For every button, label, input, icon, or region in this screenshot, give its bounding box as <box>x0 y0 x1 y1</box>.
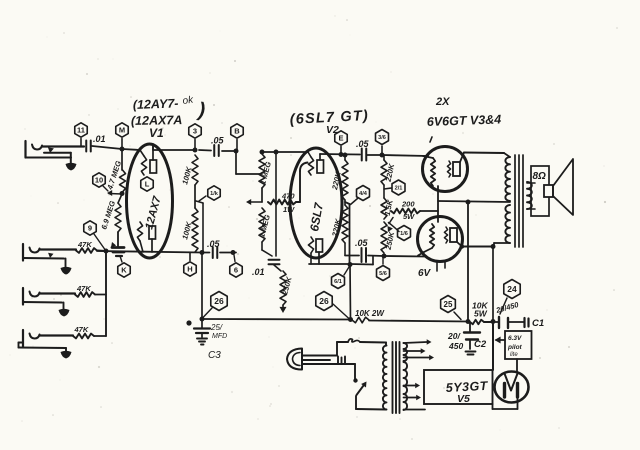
svg-text:MFD: MFD <box>212 333 227 340</box>
svg-text:47K: 47K <box>77 240 92 249</box>
node 26 left <box>203 292 227 318</box>
svg-text:K: K <box>121 266 127 275</box>
resistor 47K c <box>73 325 106 338</box>
capacitor .01 <box>86 134 105 152</box>
OT bottom wire <box>494 243 510 247</box>
pin 1 tick <box>430 137 432 142</box>
svg-text:6V: 6V <box>418 268 432 279</box>
svg-text:5W: 5W <box>403 212 415 221</box>
resistor 47K a <box>76 240 106 253</box>
PT tap heater a <box>404 339 432 345</box>
node E <box>335 131 347 154</box>
svg-text:H: H <box>187 265 192 274</box>
V2 plate lower <box>316 239 323 264</box>
V2 grid upper <box>308 152 314 175</box>
V5 heater return <box>493 397 518 409</box>
svg-text:C2: C2 <box>474 339 487 350</box>
AC prong mid <box>302 359 330 361</box>
polarity dot C3 <box>186 320 191 325</box>
node 9 <box>84 221 106 251</box>
wire 100K mid <box>194 185 196 208</box>
junction w1 <box>200 250 205 255</box>
node K <box>118 256 130 277</box>
V1 plate (lower) <box>149 226 156 252</box>
wire junction to bus <box>349 265 352 320</box>
svg-text:1/k: 1/k <box>210 191 219 197</box>
label 6V <box>418 268 432 279</box>
ground at jack J3 <box>59 309 70 317</box>
V2 output line <box>345 256 425 257</box>
wire M to resistor <box>121 149 123 170</box>
label 12AX7 inside V1 <box>143 194 164 230</box>
resistor 10K 5W <box>470 301 493 325</box>
capacitor C3 25MFD <box>194 319 227 345</box>
resistor 1MEG b <box>257 208 272 242</box>
OT core <box>515 155 523 247</box>
tube label (12AY7- ok <box>133 94 207 121</box>
svg-text:25: 25 <box>444 300 453 309</box>
capacitor .05 d <box>355 238 369 262</box>
V5 cathode bar a <box>503 384 506 398</box>
resistor 220K b <box>330 200 348 255</box>
svg-text:450: 450 <box>448 341 463 351</box>
svg-text:1/6: 1/6 <box>400 231 408 237</box>
svg-text:.05: .05 <box>207 239 221 249</box>
cathode bypass marks <box>111 232 124 256</box>
junction M <box>120 147 125 152</box>
resistor 47K b <box>75 284 106 297</box>
V5 cathode bar b <box>516 384 519 398</box>
input jack J4 <box>19 330 74 351</box>
wire jack J1 to V1 grid <box>92 146 140 150</box>
OT primary coil <box>505 157 510 243</box>
node 26 right <box>316 292 350 320</box>
tube label V2 <box>326 124 339 136</box>
PT tap to rect b <box>404 395 422 400</box>
svg-text:200: 200 <box>401 200 415 209</box>
PT core <box>393 342 400 413</box>
junction bus right <box>491 319 496 324</box>
svg-text:M: M <box>119 126 125 135</box>
capacitor 20/450 C1a <box>493 300 520 328</box>
junction B <box>234 149 239 154</box>
arrow below 250K <box>280 305 287 313</box>
junction 3/6 <box>380 153 385 158</box>
V2 plate wire <box>320 153 360 156</box>
speaker box 8ohm <box>531 166 549 216</box>
junction w2 <box>231 250 236 255</box>
node 24 <box>500 280 520 315</box>
svg-text:470: 470 <box>281 192 295 201</box>
V2 grid lower <box>308 237 313 264</box>
svg-text:C3: C3 <box>208 350 221 361</box>
resistor 220K c <box>381 155 396 185</box>
svg-text:V1: V1 <box>149 126 164 140</box>
input jack J2 <box>23 244 76 267</box>
input jack J3 <box>23 288 75 310</box>
V4 plate <box>444 227 457 243</box>
wire node3 to B <box>199 150 236 151</box>
tube label V1 <box>149 126 164 140</box>
tube label (12AX7A <box>131 113 183 128</box>
pilot lamp box <box>505 331 532 359</box>
PT tap heater b <box>404 348 426 354</box>
svg-text:3/6: 3/6 <box>378 135 386 141</box>
tube label 6V6GT V3&4 <box>427 112 502 129</box>
svg-text:24: 24 <box>507 284 517 294</box>
wire cap to 3/6 <box>367 155 428 156</box>
svg-text:6.3V: 6.3V <box>508 335 522 342</box>
wire cath to cap <box>202 252 210 254</box>
OT secondary wires <box>527 183 535 209</box>
V3 plate lead <box>460 153 504 163</box>
node 3 <box>189 124 201 150</box>
OT center tap <box>438 200 510 322</box>
junction 1meg top <box>260 150 265 155</box>
PT tap to rect a <box>404 383 421 388</box>
PT secondary 5V <box>404 343 408 361</box>
svg-text:20/: 20/ <box>447 331 461 341</box>
svg-text:47K: 47K <box>76 284 91 293</box>
node 11 <box>75 123 87 146</box>
junction node3 <box>193 148 198 153</box>
wire cap to 250K <box>274 265 281 271</box>
svg-text:3: 3 <box>193 127 197 136</box>
svg-text:C1: C1 <box>532 318 544 329</box>
resistor 220K a <box>330 155 348 200</box>
wire cap to node6 <box>220 252 236 254</box>
V3 screen lead <box>437 186 439 222</box>
resistor 470 1W <box>268 163 308 215</box>
junction bus 26 <box>348 317 353 322</box>
svg-text:26: 26 <box>214 296 224 306</box>
wire lamp to rectifier <box>516 359 518 373</box>
resistor 6.9MEG <box>99 194 122 232</box>
svg-text:8Ω: 8Ω <box>533 171 547 182</box>
AC plug <box>287 349 302 370</box>
node 25 <box>441 296 461 320</box>
node 2/1 <box>384 180 405 195</box>
bus C3 to 10K2W <box>202 318 351 321</box>
grid wire to V2 <box>262 151 308 153</box>
svg-text:E: E <box>338 134 343 143</box>
wire to OT primary top <box>504 153 510 157</box>
V1 plate (upper) <box>150 144 157 173</box>
input jack J1 <box>26 141 85 163</box>
V4 plate wire <box>457 242 494 249</box>
junction 250K bottom <box>382 254 387 259</box>
AC prong bottom <box>302 363 355 365</box>
svg-text:10: 10 <box>95 176 103 185</box>
svg-text:5/6: 5/6 <box>379 271 387 277</box>
cord connector <box>338 357 345 364</box>
junction 470 <box>261 188 263 202</box>
resistor 100K a <box>180 155 198 186</box>
junction E <box>339 152 344 157</box>
svg-text:V2: V2 <box>326 124 339 136</box>
svg-text:6V6GT V3&4: 6V6GT V3&4 <box>427 112 502 129</box>
capacitor .05 a <box>211 136 225 157</box>
wire 1MEG to cap <box>262 242 272 256</box>
resistor 250K b <box>381 222 396 253</box>
tube label (6SL7 GT) <box>289 108 369 128</box>
node 6 <box>230 255 242 277</box>
jack mixing bus <box>105 251 107 336</box>
PT secondary HV <box>404 362 408 410</box>
speaker <box>544 159 573 215</box>
wire lower signal bus <box>97 251 202 253</box>
fuse <box>337 339 386 356</box>
svg-text:.05: .05 <box>355 238 369 248</box>
heater pins V4 <box>437 261 445 271</box>
svg-text:26: 26 <box>319 296 329 306</box>
capacitor C2 20/450 <box>447 322 487 355</box>
resistor 200 5W <box>391 200 438 222</box>
V2 lower plate line <box>309 256 373 265</box>
wire screen bracket <box>345 202 350 264</box>
OT secondary coil <box>527 182 532 209</box>
V3 grid <box>423 156 435 186</box>
junction C3 <box>200 317 205 322</box>
tetrode V4 envelope <box>418 217 463 262</box>
node M <box>116 123 128 149</box>
svg-text:pilot: pilot <box>507 344 523 351</box>
junction grid tap <box>274 150 279 155</box>
junction bracket <box>196 201 203 253</box>
node H <box>184 253 196 276</box>
junction bus left 10K5W <box>466 319 471 324</box>
capacitor .05 b <box>207 239 221 258</box>
node 10 <box>93 173 108 191</box>
capacitor C1 <box>508 318 544 329</box>
wire grid tap down <box>275 152 277 256</box>
node 6/1 <box>332 267 349 289</box>
wire B down <box>236 151 262 174</box>
V5 filament V <box>505 374 518 391</box>
resistor 1.5K <box>381 185 395 219</box>
resistor 250K a <box>280 271 294 305</box>
label V5 <box>457 393 470 405</box>
label C3 <box>208 350 221 361</box>
PT tap heater c <box>404 355 435 360</box>
svg-text:5W: 5W <box>474 309 488 319</box>
label 6SL7 inside V2 <box>307 201 326 233</box>
junction jack bus <box>104 249 109 254</box>
V3 plate <box>447 161 460 177</box>
svg-text:B: B <box>234 127 240 136</box>
wire V4 plate down <box>492 247 494 322</box>
capacitor .05 c <box>356 139 370 161</box>
AC prong top <box>302 355 337 357</box>
svg-text:.01: .01 <box>252 267 265 277</box>
resistor 1MEG a <box>258 154 273 188</box>
wire B+ to rectifier <box>492 322 494 370</box>
svg-text:6/1: 6/1 <box>334 279 342 285</box>
V1 plate wire upper to node 3 <box>153 149 195 151</box>
arrow feedback <box>246 199 262 205</box>
svg-text:V5: V5 <box>457 393 470 405</box>
V2 plate upper <box>317 154 324 173</box>
PT primary coil <box>383 346 387 410</box>
node 4/4 <box>351 186 370 205</box>
tube label 2X <box>435 96 450 108</box>
arrow to cathode junction <box>107 190 122 196</box>
V4 grid <box>418 224 434 256</box>
capacitor .01 b <box>252 260 280 277</box>
svg-text:11: 11 <box>77 126 85 135</box>
node 1/6 <box>389 223 411 241</box>
svg-text:6: 6 <box>234 266 238 275</box>
svg-text:4/4: 4/4 <box>359 191 368 197</box>
junction plate <box>491 244 496 249</box>
junction 220K a <box>343 153 348 158</box>
svg-text:2X: 2X <box>435 96 450 108</box>
svg-text:10K 2W: 10K 2W <box>355 309 385 318</box>
node 3/6 <box>376 130 389 156</box>
ground at jack J1 <box>66 163 77 171</box>
junction cathode V1 <box>120 191 125 196</box>
polarity arrow on jack J2 <box>48 253 53 258</box>
rectifier V5 envelope <box>495 372 529 403</box>
tetrode V3 envelope <box>423 147 468 192</box>
node 5/6 <box>377 258 390 281</box>
triode V2 envelope <box>290 148 342 258</box>
svg-text:25/: 25/ <box>210 323 223 332</box>
svg-text:.05: .05 <box>211 136 225 146</box>
wire down to C3 <box>201 253 203 320</box>
polarity arrow on jack J1 <box>48 147 54 153</box>
resistor 100K b <box>180 208 198 252</box>
label 5Y3GT <box>445 379 489 395</box>
svg-text:.05: .05 <box>356 139 370 149</box>
resistor 10K 2W <box>352 309 385 323</box>
power switch <box>353 364 386 410</box>
svg-text:L: L <box>145 180 150 189</box>
svg-text:47K: 47K <box>74 325 89 334</box>
PT tap bottom <box>404 409 426 411</box>
node B <box>231 124 243 151</box>
svg-text:2/1: 2/1 <box>395 186 403 192</box>
svg-text:.01: .01 <box>93 134 106 144</box>
V1 grid (upper) and lead <box>140 150 147 175</box>
svg-text:9: 9 <box>88 224 92 233</box>
svg-text:(12AY7-: (12AY7- <box>133 96 179 112</box>
node 1K <box>199 186 220 201</box>
ground at jack J2 <box>61 267 72 275</box>
arrow from lamp <box>495 337 506 344</box>
bus mid <box>369 321 468 322</box>
svg-text:lite: lite <box>510 352 518 358</box>
rectifier box <box>424 370 493 404</box>
node L <box>141 177 153 191</box>
ground at jack J4 <box>61 351 72 359</box>
arrow at 6V6 cathode junction <box>388 218 394 233</box>
triode V1 envelope <box>127 144 173 258</box>
junction lower <box>348 262 353 267</box>
resistor 4.7MEG <box>105 160 125 192</box>
V1 grid (lower) and lead <box>137 222 143 252</box>
